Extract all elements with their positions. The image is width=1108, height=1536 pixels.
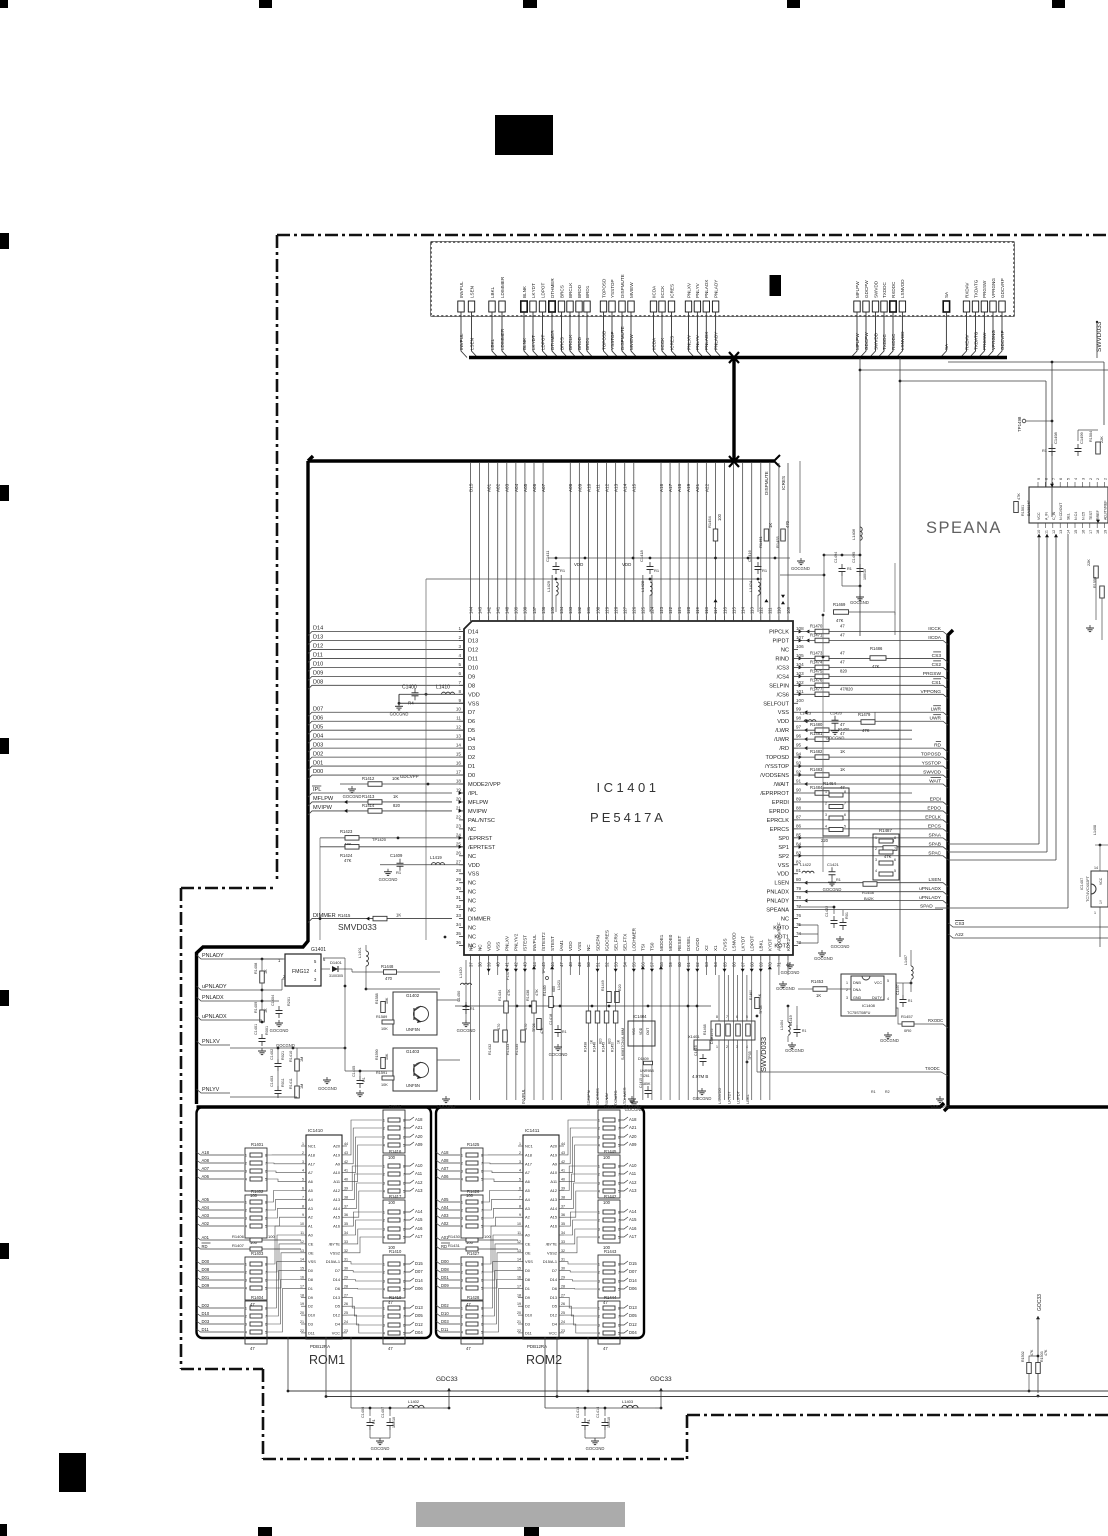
svg-text:LODHMER: LODHMER — [632, 927, 637, 951]
svg-text:95: 95 — [796, 743, 802, 748]
svg-text:11: 11 — [456, 716, 461, 721]
svg-text:28: 28 — [344, 1284, 348, 1288]
capacitor C1498 — [1051, 444, 1053, 449]
svg-text:4: 4 — [245, 1225, 247, 1229]
svg-text:NC: NC — [468, 890, 476, 896]
boundary dash-dot bottom horizontal y=1459 — [263, 1458, 687, 1461]
svg-text:4: 4 — [383, 1236, 385, 1240]
wire GDCVRP to bus — [996, 312, 1002, 358]
svg-text:47K: 47K — [1017, 493, 1021, 500]
svg-text:R1479: R1479 — [858, 712, 871, 717]
svg-text:21: 21 — [300, 1320, 304, 1324]
svg-text:15: 15 — [300, 1267, 304, 1271]
svg-text:5: 5 — [265, 1178, 267, 1182]
svg-text:14: 14 — [517, 1258, 521, 1262]
svg-text:D9: D9 — [525, 1295, 530, 1300]
right wire pin96 — [804, 737, 807, 741]
svg-text:/IPL: /IPL — [468, 791, 478, 797]
svg-text:CS2: CS2 — [932, 662, 942, 668]
capacitor C1405 R1 — [359, 1076, 361, 1081]
svg-text:91: 91 — [796, 779, 802, 784]
svg-text:16: 16 — [517, 1276, 521, 1280]
connector pin IICCK — [659, 301, 665, 312]
connector pin BRCS — [558, 301, 564, 312]
svg-text:L1422: L1422 — [800, 862, 812, 867]
svg-text:CE: CE — [525, 1241, 531, 1246]
svg-text:8: 8 — [618, 1119, 620, 1123]
svg-text:8: 8 — [403, 1263, 405, 1267]
svg-text:VCC: VCC — [1037, 512, 1041, 520]
EPROM IC1410 body — [306, 1135, 342, 1339]
wire BRD1 to bus — [587, 312, 593, 358]
right wire pin92 SWVDD — [799, 773, 802, 777]
svg-text:2: 2 — [383, 1219, 385, 1223]
capacitor C1401 R001 — [261, 1034, 263, 1039]
svg-text:R1408: R1408 — [254, 963, 258, 974]
connector pin SA — [943, 301, 949, 312]
svg-text:R1: R1 — [871, 1090, 876, 1094]
svg-text:12: 12 — [456, 725, 462, 730]
svg-text:R1449: R1449 — [601, 980, 605, 991]
wire bottom pin46 down — [551, 975, 553, 1100]
wire vertical x=895 — [894, 563, 896, 615]
svg-text:L1428: L1428 — [640, 580, 645, 592]
wire TXDDC to bus — [878, 312, 884, 358]
resistor R1588 10K for Q1402 — [381, 1002, 386, 1013]
boundary dash-dot top horizontal — [277, 234, 1108, 237]
svg-text:100/10: 100/10 — [392, 1417, 396, 1428]
svg-text:PRGSW: PRGSW — [982, 280, 987, 298]
wire BRCS to bus — [562, 312, 568, 358]
svg-text:OE: OE — [308, 1250, 314, 1255]
resistor array R1404 — [245, 1301, 267, 1344]
svg-text:R1504: R1504 — [1089, 431, 1093, 442]
svg-text:40: 40 — [344, 1178, 348, 1182]
svg-text:5: 5 — [403, 1288, 405, 1292]
resistor R1556 — [1100, 586, 1105, 598]
resistor R1506 22K right edge mid — [1094, 566, 1099, 578]
net tag D02 — [436, 1305, 460, 1308]
svg-text:VDD: VDD — [568, 941, 573, 951]
svg-text:G1401: G1401 — [311, 947, 326, 953]
net tag D08 — [436, 1269, 460, 1272]
svg-text:PNLXV: PNLXV — [505, 935, 510, 951]
svg-text:VCC: VCC — [874, 981, 882, 985]
registration mark bottom 2 — [258, 1527, 272, 1536]
connector pin MFLPW — [854, 301, 860, 312]
capacitor C1404 R201 — [278, 1006, 280, 1011]
svg-text:D14: D14 — [468, 630, 478, 636]
svg-text:D09: D09 — [313, 671, 323, 677]
svg-text:X1: X1 — [713, 945, 718, 951]
svg-text:IC1407: IC1407 — [1080, 878, 1084, 890]
svg-text:PNLXV: PNLXV — [686, 282, 691, 298]
net tag D00 — [436, 1261, 460, 1264]
svg-text:/CS3: /CS3 — [777, 665, 789, 671]
svg-text:D14: D14 — [629, 1278, 637, 1283]
resistor array R1429 — [598, 1110, 620, 1153]
wire vertical x=1048 TP1498 — [1051, 362, 1053, 517]
svg-text:GOCGND: GOCGND — [814, 956, 833, 961]
svg-text:NC: NC — [468, 881, 476, 887]
svg-text:C1400: C1400 — [402, 684, 417, 690]
svg-text:A6: A6 — [308, 1179, 313, 1184]
svg-text:31: 31 — [456, 895, 462, 900]
photo-interrupter G1401 FMG12 box — [285, 954, 321, 986]
svg-text:A17: A17 — [308, 1161, 315, 1166]
svg-text:GDCVPP: GDCVPP — [400, 774, 419, 779]
svg-text:8: 8 — [519, 1204, 521, 1208]
svg-text:A12: A12 — [415, 1180, 423, 1185]
svg-text:D8: D8 — [525, 1277, 530, 1282]
net tag D09 — [308, 676, 464, 680]
svg-text:5: 5 — [458, 662, 461, 667]
svg-text:7: 7 — [481, 1209, 483, 1213]
svg-text:D7: D7 — [552, 1268, 557, 1273]
svg-text:VDD: VDD — [486, 941, 491, 951]
op-amp main IC IC1401 PE5417A body — [464, 621, 793, 955]
wire MVIEW to bus — [631, 312, 637, 358]
svg-text:1K: 1K — [396, 913, 401, 918]
svg-text:R1: R1 — [847, 567, 852, 571]
svg-text:BLNK: BLNK — [522, 285, 527, 298]
registration mark top 4 — [787, 0, 800, 8]
svg-text:D05: D05 — [415, 1313, 423, 1318]
svg-text:32: 32 — [456, 904, 462, 909]
wire SPAD to IC1451 pin13 — [935, 907, 1068, 909]
svg-text:A16: A16 — [415, 1226, 423, 1231]
svg-text:10K: 10K — [385, 1053, 389, 1060]
connector pin INVPUL — [458, 301, 464, 312]
capacitor C1418 R1 mid — [557, 1025, 559, 1030]
svg-text:TXDDC: TXDDC — [882, 281, 887, 298]
svg-text:10: 10 — [1037, 530, 1041, 534]
arrows on bottom pin wires — [487, 969, 491, 972]
net stub D04 — [620, 1330, 628, 1333]
svg-text:6: 6 — [403, 1280, 405, 1284]
net tag A04 — [197, 1207, 245, 1210]
svg-text:3: 3 — [245, 1217, 247, 1221]
svg-text:GOC33: GOC33 — [1037, 1294, 1043, 1311]
svg-text:R1436: R1436 — [526, 990, 530, 1001]
wire vertical x=345 down — [344, 986, 346, 1071]
svg-text:TS0: TS0 — [650, 942, 655, 951]
svg-text:7: 7 — [403, 1315, 405, 1319]
net stub A20 — [620, 1134, 628, 1137]
svg-text:1: 1 — [245, 1307, 247, 1311]
svg-text:R1403: R1403 — [251, 1251, 264, 1256]
svg-text:GOCGND: GOCGND — [318, 1086, 337, 1091]
svg-text:30: 30 — [561, 1267, 565, 1271]
svg-text:TC75ST08FU: TC75ST08FU — [847, 1011, 871, 1015]
svg-text:D03: D03 — [202, 1319, 210, 1324]
svg-text:47: 47 — [840, 659, 845, 664]
svg-text:BRCS: BRCS — [559, 285, 564, 298]
net tag D00 — [197, 1261, 245, 1264]
svg-text:22: 22 — [517, 1329, 521, 1333]
svg-text:EPRCLK: EPRCLK — [767, 818, 790, 824]
svg-text:9: 9 — [458, 698, 461, 703]
svg-text:VPRGNG: VPRGNG — [991, 330, 996, 350]
svg-text:R1476: R1476 — [810, 677, 823, 682]
svg-text:27: 27 — [456, 859, 462, 864]
svg-text:C1401: C1401 — [254, 1024, 258, 1035]
svg-text:10: 10 — [517, 1222, 521, 1226]
svg-text:A0: A0 — [308, 1233, 314, 1238]
svg-text:D02: D02 — [313, 751, 323, 757]
op-amp IC1408 TC75S57DBFU outer box — [841, 974, 896, 1016]
svg-text:VDD: VDD — [468, 863, 480, 869]
svg-text:2: 2 — [875, 847, 877, 851]
svg-text:MODE2/VPP: MODE2/VPP — [468, 782, 501, 788]
svg-text:R1589: R1589 — [376, 1015, 387, 1019]
svg-text:A05: A05 — [202, 1197, 210, 1202]
net tag D01 — [308, 766, 464, 770]
svg-text:A19: A19 — [550, 1152, 557, 1157]
svg-text:47K: 47K — [540, 1027, 544, 1034]
svg-text:LSEN: LSEN — [469, 286, 474, 298]
svg-text:A13: A13 — [333, 1197, 340, 1202]
wire LSNVDD to bus — [896, 312, 902, 358]
net tag A02 — [197, 1223, 245, 1226]
svg-text:D13: D13 — [313, 635, 323, 641]
svg-text:C1402: C1402 — [270, 1049, 274, 1060]
svg-text:R1464: R1464 — [823, 781, 836, 786]
resistor R1454 100 on pin117 wire — [713, 529, 718, 541]
svg-text:16: 16 — [300, 1276, 304, 1280]
svg-text:D6: D6 — [335, 1286, 340, 1291]
svg-text:G1403: G1403 — [406, 1049, 420, 1054]
connector pin LKYDT — [530, 301, 536, 312]
svg-text:185K: 185K — [642, 1082, 651, 1086]
svg-text:INVPUL: INVPUL — [459, 333, 464, 350]
wire BRCLK to bus — [570, 312, 576, 358]
svg-text:A0: A0 — [525, 1233, 531, 1238]
svg-text:3: 3 — [461, 1170, 463, 1174]
wires IC1451 bottom pins down (SPAA/SPAB/SPAC) — [1038, 534, 1040, 844]
svg-text:DNA: DNA — [853, 988, 861, 992]
svg-text:GDCVRP: GDCVRP — [1000, 278, 1005, 298]
bus right vertical x=948 — [948, 630, 953, 1107]
svg-text:100: 100 — [484, 1234, 491, 1239]
svg-text:DNB: DNB — [853, 981, 861, 985]
svg-text:8: 8 — [265, 1154, 267, 1158]
boundary dash-dot left vertical upper — [276, 235, 279, 883]
net stub A15 — [405, 1217, 414, 1220]
bus line above IC1401 — [308, 456, 313, 461]
svg-text:5: 5 — [403, 1190, 405, 1194]
svg-text:D10: D10 — [525, 1313, 533, 1318]
svg-text:D4: D4 — [552, 1322, 558, 1327]
svg-text:3: 3 — [846, 996, 848, 1000]
resistor R1450 1K — [615, 975, 617, 1100]
svg-text:C1497: C1497 — [896, 984, 900, 995]
svg-text:SELFRX: SELFRX — [613, 933, 618, 951]
svg-text:4: 4 — [383, 1190, 385, 1194]
net stub D15 — [620, 1261, 628, 1264]
svg-text:GOCGND: GOCGND — [850, 600, 869, 605]
svg-text:A2: A2 — [308, 1215, 313, 1220]
svg-text:L1403: L1403 — [622, 1399, 634, 1404]
svg-text:6: 6 — [481, 1323, 483, 1327]
svg-text:6: 6 — [265, 1170, 267, 1174]
svg-text:R1480: R1480 — [543, 985, 547, 996]
svg-text:IC1404: IC1404 — [633, 1014, 647, 1019]
registration mark left 1 — [0, 233, 9, 249]
svg-text:0R0: 0R0 — [904, 1028, 912, 1033]
svg-text:1: 1 — [383, 1307, 385, 1311]
svg-text:47: 47 — [250, 1346, 255, 1351]
op-amp IC1408 inner body — [851, 976, 884, 1000]
right wire pin94 TOPOSD — [799, 755, 802, 759]
wire LKYDT to bus — [533, 312, 539, 358]
svg-text:12: 12 — [517, 1240, 521, 1244]
svg-text:R1406: R1406 — [232, 1234, 245, 1239]
svg-text:SWVDD: SWVDD — [873, 280, 878, 298]
svg-text:A02: A02 — [496, 483, 501, 492]
resistor R1409 1K — [260, 1010, 265, 1022]
capacitor C1422 R01 pins 75-73 — [833, 916, 835, 921]
svg-text:1: 1 — [461, 1201, 463, 1205]
page number block (black) — [495, 115, 553, 155]
svg-text:8: 8 — [894, 836, 896, 840]
svg-text:2: 2 — [598, 1173, 600, 1177]
svg-text:RIND: RIND — [775, 656, 789, 662]
svg-text:5: 5 — [618, 1332, 620, 1336]
svg-text:3: 3 — [461, 1217, 463, 1221]
svg-text:R1471: R1471 — [810, 632, 823, 637]
svg-text:3: 3 — [461, 1323, 463, 1327]
wire INVPUL to bus — [461, 312, 467, 358]
svg-text:17: 17 — [517, 1284, 521, 1288]
svg-text:MFLPW: MFLPW — [468, 800, 489, 806]
wire uPNLADX row — [230, 1019, 262, 1021]
svg-text:C1450: C1450 — [457, 991, 461, 1002]
svg-text:R1457: R1457 — [901, 1014, 914, 1019]
svg-text:/GDCRES: /GDCRES — [604, 930, 609, 951]
svg-text:R1: R1 — [372, 1419, 376, 1424]
svg-text:20: 20 — [517, 1311, 521, 1315]
svg-text:4: 4 — [598, 1144, 600, 1148]
ground GOCGND pin72 zone — [821, 950, 823, 953]
resistor R1590 10K for Q1403 — [381, 1058, 386, 1069]
svg-text:LDPOT: LDPOT — [750, 935, 755, 951]
svg-text:NC: NC — [468, 899, 476, 905]
wire LDPOT to bus — [543, 312, 549, 358]
svg-text:A13: A13 — [614, 483, 619, 492]
resistor R1434b 470 — [503, 1030, 508, 1042]
resistor R1457 0R0 output — [902, 1022, 914, 1027]
right wire pin99 LWR — [804, 710, 807, 714]
svg-text:D2: D2 — [525, 1304, 530, 1309]
crystal X1401 DSB1575 — [694, 1040, 710, 1050]
svg-text:6: 6 — [265, 1279, 267, 1283]
svg-text:47K: 47K — [344, 858, 352, 863]
svg-text:D9: D9 — [308, 1295, 313, 1300]
svg-text:VSS: VSS — [468, 872, 479, 878]
svg-text:5: 5 — [519, 1178, 521, 1182]
svg-text:100/10: 100/10 — [607, 1417, 611, 1428]
svg-text:SPAA: SPAA — [929, 832, 942, 838]
svg-text:PNLYV: PNLYV — [202, 1087, 220, 1093]
svg-text:RXDDC: RXDDC — [891, 333, 896, 350]
svg-text:R1433: R1433 — [506, 1044, 510, 1055]
svg-text:11: 11 — [1044, 530, 1048, 534]
svg-text:29: 29 — [561, 1276, 565, 1280]
svg-text:6: 6 — [618, 1324, 620, 1328]
svg-text:SELPIN: SELPIN — [769, 683, 789, 689]
net tag PNLADY — [197, 955, 231, 959]
svg-text:7: 7 — [403, 1127, 405, 1131]
resistor R1451 1K on DISPMUTE wire — [764, 529, 769, 541]
svg-text:R1455: R1455 — [775, 535, 780, 548]
svg-text:R1435: R1435 — [515, 1044, 519, 1055]
svg-text:R1475: R1475 — [810, 668, 823, 673]
single resistors A01/RD rows — [436, 1237, 518, 1240]
svg-text:OUT: OUT — [646, 1028, 650, 1035]
svg-text:VSS: VSS — [778, 710, 789, 716]
svg-text:C1419: C1419 — [789, 1015, 793, 1026]
svg-text:/YSSTOP: /YSSTOP — [765, 764, 789, 770]
svg-text:A3: A3 — [308, 1206, 313, 1211]
svg-text:R1458: R1458 — [862, 890, 875, 895]
svg-text:GOCGND: GOCGND — [457, 1028, 476, 1033]
svg-text:2: 2 — [458, 635, 461, 640]
svg-text:DUTY: DUTY — [872, 996, 883, 1000]
svg-text:13: 13 — [456, 734, 462, 739]
svg-text:D08: D08 — [441, 1267, 449, 1272]
svg-text:R1: R1 — [562, 1030, 567, 1034]
svg-text:3: 3 — [302, 1160, 304, 1164]
svg-text:D7: D7 — [335, 1268, 340, 1273]
svg-text:24: 24 — [561, 1320, 565, 1324]
svg-text:VDD: VDD — [639, 1027, 643, 1035]
net stub D05 — [405, 1313, 414, 1316]
registration mark top-right — [1052, 0, 1065, 8]
right wire pin87 EPCLK — [798, 819, 912, 821]
capacitor C1497 R1 — [902, 995, 904, 1000]
svg-text:R1474: R1474 — [810, 659, 823, 664]
svg-text:2: 2 — [461, 1162, 463, 1166]
svg-text:A08: A08 — [441, 1158, 449, 1163]
svg-text:R1407: R1407 — [232, 1243, 245, 1248]
svg-text:1: 1 — [383, 1165, 385, 1169]
resistor R1486 47K — [870, 656, 886, 661]
right wire pin104 CS2 — [799, 665, 802, 669]
svg-text:5: 5 — [1067, 478, 1071, 480]
svg-text:A18: A18 — [525, 1152, 532, 1157]
svg-text:GOCGND: GOCGND — [776, 986, 795, 991]
boundary dash-dot vertical x=263 — [262, 1369, 265, 1459]
net tag A08 — [436, 1160, 460, 1163]
wire RXDDC to bus — [887, 312, 893, 358]
svg-text:SDE3PN: SDE3PN — [586, 1090, 591, 1106]
svg-text:VSS: VSS — [525, 1259, 533, 1264]
svg-text:NC: NC — [586, 944, 591, 951]
resistor array R1443 — [598, 1255, 620, 1298]
svg-text:IICDA: IICDA — [651, 337, 656, 350]
svg-text:A06: A06 — [202, 1174, 210, 1179]
svg-text:TXODC: TXODC — [925, 1066, 940, 1071]
wire PNLYV row — [230, 1096, 278, 1098]
svg-text:/EPRRST: /EPRRST — [468, 836, 493, 842]
wire SA to bus — [940, 312, 946, 358]
svg-text:C1495: C1495 — [852, 552, 856, 563]
svg-text:C1403: C1403 — [270, 1076, 274, 1087]
svg-text:1M: 1M — [300, 1084, 304, 1089]
svg-text:SWVDD: SWVDD — [873, 332, 878, 350]
svg-text:100/10: 100/10 — [863, 569, 867, 580]
